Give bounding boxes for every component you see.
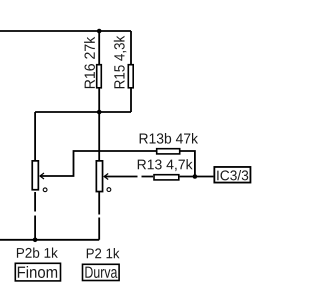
label IC3/3: [217, 170, 248, 180]
label P2 1k: [87, 248, 120, 258]
Finom label box: [15, 263, 60, 281]
wire mid bus y112: [35, 111, 131, 113]
wire top bus: [0, 30, 131, 32]
resistor R15: [128, 65, 133, 88]
IC3/3 box: [214, 167, 250, 183]
wire R13b right lead down to junction: [181, 151, 195, 177]
P2 wiper terminal circle: [107, 188, 111, 192]
resistor R16: [97, 65, 102, 88]
label R16 27k: [84, 37, 95, 88]
resistor R13: [154, 175, 179, 180]
junction dot top (R16 top): [97, 29, 102, 34]
label R13 4,7k: [138, 159, 193, 171]
wire P2 bottom lead: [98, 192, 100, 240]
P2b wiper arrowhead: [40, 173, 44, 179]
wire P2 wiper to R13: [104, 176, 153, 178]
junction dot R13/R13b: [193, 174, 198, 179]
potentiometer P2b body: [32, 161, 38, 190]
label R15 4,3k: [114, 36, 127, 88]
wire R13 to IC3/3: [180, 176, 214, 178]
wire R16 / P2 vertical: [98, 31, 100, 160]
wire P2b bottom lead: [34, 192, 36, 240]
label R13b 47k: [140, 133, 198, 144]
junction dot mid (R16/R15/pots): [97, 110, 102, 115]
junction dot bottom bus: [33, 238, 38, 243]
resistor R13b: [157, 149, 180, 154]
label Finom: [18, 266, 57, 278]
wire bottom bus: [0, 239, 99, 241]
P2 wiper arrowhead: [104, 174, 108, 180]
wire P2b wiper to R13b: [40, 151, 156, 176]
Durva label box: [83, 264, 120, 280]
wire R15 branch drop: [130, 31, 132, 112]
wire left drop to P2b: [34, 112, 36, 160]
label P2b 1k: [17, 248, 58, 258]
potentiometer P2 body: [96, 161, 102, 192]
P2b wiper terminal circle: [43, 188, 47, 192]
label Durva: [85, 267, 117, 278]
